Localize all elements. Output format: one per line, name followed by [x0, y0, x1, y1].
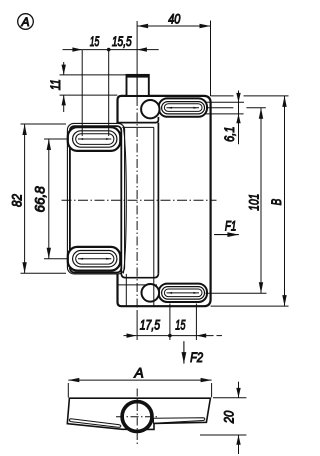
barrel strip right edge — [157, 123, 159, 274]
bottom view left leaf blade — [69, 419, 120, 427]
svg-text:6,1: 6,1 — [221, 126, 237, 142]
force F2 — [182, 341, 187, 363]
vertical axis centreline — [136, 21, 138, 340]
dimension 66,8 — [44, 139, 68, 259]
svg-text:F1: F1 — [225, 218, 237, 233]
dimension B — [211, 96, 289, 306]
svg-text:15,5: 15,5 — [112, 33, 132, 49]
bottom knuckle block upper edge — [118, 284, 157, 286]
svg-text:A: A — [20, 15, 29, 29]
dimension 82 — [21, 124, 67, 273]
slot top-right : hole outer — [162, 102, 205, 114]
top knuckle block lower edge — [117, 117, 158, 123]
svg-text:66,8: 66,8 — [32, 186, 48, 212]
slot bottom-left : length arrows — [78, 258, 111, 260]
slot top-left : boss — [68, 127, 121, 151]
slot bottom-left : hole inner — [76, 253, 114, 264]
slot top-right : boss — [159, 98, 207, 116]
force F1 — [214, 232, 239, 237]
slot bottom-right : hole inner — [164, 289, 202, 297]
svg-text:15: 15 — [175, 317, 185, 333]
svg-text:101: 101 — [246, 194, 262, 211]
slot top-left : hole outer — [73, 131, 117, 147]
dimension 15 / 15,5 — [63, 47, 159, 136]
right leaf outline — [118, 96, 211, 306]
slot bottom-right : length arrows — [167, 292, 200, 294]
slot top-right : hole inner — [164, 104, 202, 112]
dimension 40 — [137, 21, 210, 97]
dimension 11 — [60, 62, 127, 112]
bottom barrel column left edge — [125, 274, 127, 306]
bottom view centrelines — [116, 389, 160, 445]
dimension 6,1 — [205, 91, 289, 145]
bottom knuckle circle — [142, 284, 160, 302]
left leaf outer contour — [67, 123, 124, 274]
slot top-right : length arrows — [167, 107, 200, 109]
svg-text:B: B — [268, 199, 284, 206]
bottom view barrel ring — [122, 402, 152, 432]
barrel strip bottom corner — [121, 268, 158, 278]
svg-text:82: 82 — [8, 194, 24, 207]
dimension A — [68, 380, 211, 397]
hinge pin — [127, 74, 149, 96]
barrel silhouette curve — [123, 127, 126, 273]
left leaf inner contour — [70, 126, 121, 272]
top knuckle circle — [141, 100, 159, 118]
barrel strip top edge — [122, 126, 154, 128]
svg-text:A: A — [133, 365, 143, 381]
dimension 101 — [206, 108, 267, 294]
svg-text:40: 40 — [168, 11, 180, 27]
slot top-left : hole inner — [76, 134, 114, 145]
slot bottom-right : boss — [159, 284, 207, 302]
barrel column inner vertical — [153, 127, 155, 305]
svg-text:15: 15 — [90, 33, 100, 49]
horizontal centreline — [62, 199, 217, 201]
view label circle A — [18, 14, 34, 30]
slot top-left : length arrows — [78, 138, 111, 140]
svg-text:11: 11 — [47, 79, 63, 90]
bottom view outline — [67, 398, 210, 429]
svg-text:F2: F2 — [190, 350, 203, 365]
bottom view right leaf blade — [154, 418, 205, 423]
svg-text:17,5: 17,5 — [140, 317, 161, 333]
dimension 17,5 / 15 — [124, 304, 223, 341]
slot bottom-right : hole outer — [162, 287, 205, 300]
svg-text:20: 20 — [221, 411, 237, 425]
slot bottom-left : boss — [68, 247, 121, 271]
slot bottom-left : hole outer — [73, 251, 117, 267]
dimension 20 — [200, 382, 246, 454]
